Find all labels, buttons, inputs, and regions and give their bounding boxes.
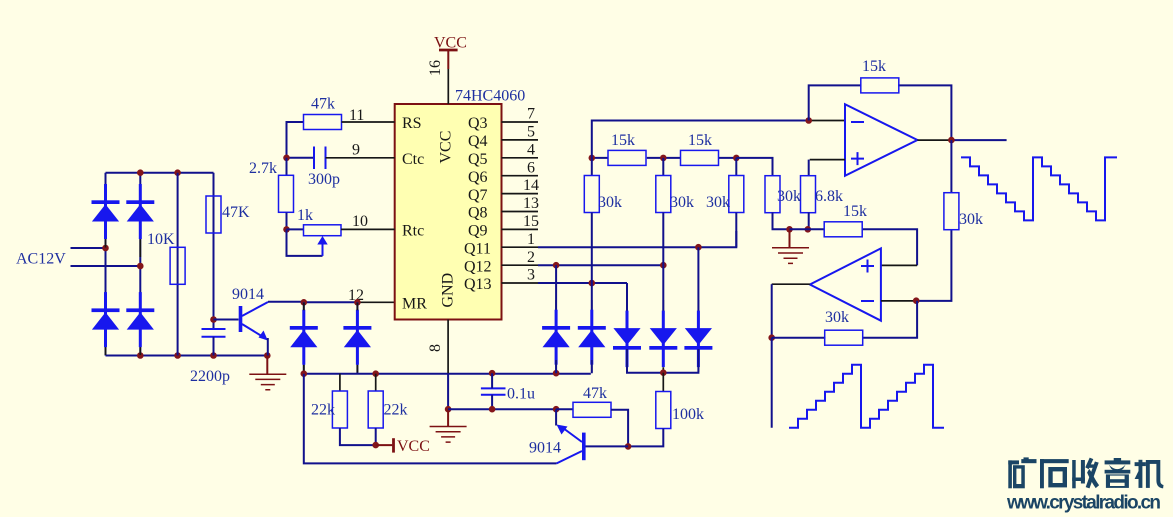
svg-text:13: 13 [523, 195, 539, 212]
svg-text:11: 11 [349, 107, 364, 124]
ground: logic [430, 406, 467, 442]
svg-text:16: 16 [427, 60, 444, 76]
diode D4 bridge bottom-right [126, 292, 154, 347]
wire: lower rail left segment [304, 373, 591, 375]
wire: Q13 row [538, 282, 627, 284]
svg-text:15k: 15k [843, 203, 867, 220]
char yin [1114, 458, 1121, 461]
wire: bridge bottom rail [106, 355, 268, 357]
svg-text:22k: 22k [384, 402, 408, 419]
opamp U2 [845, 104, 917, 176]
node: Q rows [695, 244, 702, 251]
diode D8 up [578, 310, 606, 365]
resistor 15k #1 [608, 150, 646, 165]
resistor 15k #2 [681, 150, 719, 165]
diode D6 [343, 310, 371, 365]
resistor 30k colA [584, 158, 599, 283]
resistor 6.8k [801, 176, 816, 230]
svg-text:100k: 100k [672, 406, 704, 423]
svg-text:3: 3 [527, 267, 535, 284]
wire: col A up to opamp minus rail [592, 121, 810, 158]
resistor 15k lower [824, 222, 862, 237]
wire: colA down to diode [591, 283, 593, 325]
svg-text:10K: 10K [147, 231, 175, 248]
node: collector / MR [301, 299, 308, 306]
resistor 15k feedback [861, 78, 899, 93]
ground: opamp [772, 229, 809, 263]
node: base tap [210, 316, 217, 323]
resistor 30k feedback [825, 330, 863, 345]
wire: opamp1 output [917, 139, 951, 141]
pin MR stub [359, 301, 395, 303]
svg-text:6.8k: 6.8k [815, 188, 843, 205]
svg-text:15k: 15k [862, 58, 886, 75]
wire: bridge left column [105, 173, 107, 356]
diode D3 bridge bottom-left [92, 292, 120, 347]
svg-text:47k: 47k [311, 96, 335, 113]
svg-text:47k: 47k [583, 385, 607, 402]
wire: base of Q1 [214, 319, 239, 321]
node: 100k top [660, 369, 667, 376]
node: ladder [589, 155, 596, 162]
wire: opamp2 output [772, 283, 810, 285]
svg-text:AC12V: AC12V [16, 251, 66, 268]
svg-text:www.crystalradio.cn: www.crystalradio.cn [1006, 493, 1161, 514]
potentiometer 1k [287, 225, 395, 256]
power VCC (top) [434, 35, 467, 105]
svg-text:5: 5 [527, 124, 535, 141]
capacitor 0.1u [481, 373, 506, 409]
node: lower rail [301, 370, 308, 377]
wire: feedback loop top [809, 85, 952, 140]
resistor 47k (bottom) [556, 402, 628, 446]
svg-text:9014: 9014 [529, 440, 561, 457]
diode D1 bridge top-left [92, 184, 120, 239]
svg-text:47K: 47K [222, 204, 250, 221]
svg-text:4: 4 [527, 141, 535, 158]
resistor 2.7k [279, 158, 294, 230]
wire: 15k to opamp2 [790, 229, 918, 265]
diode D7 up [542, 310, 570, 365]
svg-text:VCC: VCC [438, 131, 455, 164]
node: feedback tap [768, 334, 775, 341]
wire: bridge top rail [106, 172, 214, 174]
wire: AC input bottom [71, 265, 141, 267]
char shi [1040, 459, 1044, 488]
capacitor 300p [287, 147, 395, 170]
wire: 0.1u row [448, 408, 556, 410]
svg-text:10: 10 [352, 213, 368, 230]
svg-text:74HC4060: 74HC4060 [455, 88, 525, 105]
resistor 47k (RS feedback) [287, 115, 395, 158]
node: gnd row [786, 226, 793, 233]
svg-text:Q6: Q6 [468, 169, 488, 186]
wire: long bottom run [304, 374, 557, 464]
wire: diode col 698 [697, 247, 699, 325]
capacitor 2200p [202, 329, 226, 356]
wire: diode col 627 [626, 283, 628, 325]
diode D11 down [684, 311, 712, 368]
wire: AC input top [71, 247, 106, 249]
IC right pin stubs Q3-Q9 [502, 122, 539, 283]
svg-text:300p: 300p [308, 171, 340, 188]
node: output [948, 137, 955, 144]
char shou [1072, 460, 1076, 488]
power VCC (bottom) [376, 438, 394, 452]
wire: bridge right column [139, 173, 141, 356]
node: minus rail tap [805, 117, 812, 124]
node: 0.1u bottom [489, 406, 496, 413]
ladder rail 15k [592, 157, 737, 159]
pin: diode black stubs [106, 239, 699, 372]
node: Rtc tap [283, 226, 290, 233]
transistor Q2 9014 [556, 409, 628, 463]
svg-text:2.7k: 2.7k [249, 160, 277, 177]
opamp U3 (pointing left) [810, 248, 881, 320]
svg-text:1k: 1k [297, 207, 313, 224]
svg-text:Q12: Q12 [464, 258, 492, 275]
svg-text:9: 9 [352, 142, 360, 159]
svg-text:30k: 30k [598, 194, 622, 211]
svg-text:GND: GND [440, 273, 457, 308]
node: bottom rail [137, 352, 144, 359]
svg-text:14: 14 [523, 177, 539, 194]
wire: Q11 row [538, 231, 736, 247]
node: top rail to 10K [137, 169, 144, 176]
svg-text:22k: 22k [311, 402, 335, 419]
svg-text:MR: MR [402, 296, 427, 313]
diode D10 down [649, 311, 677, 368]
wire: down from feedback tap [771, 338, 773, 428]
wire: 47K column [213, 173, 215, 329]
svg-text:Q3: Q3 [468, 115, 488, 132]
waveform: bottom staircase [789, 365, 944, 428]
diode D2 bridge top-right [126, 184, 154, 239]
diode D9 down [613, 311, 641, 368]
svg-text:1: 1 [527, 231, 535, 248]
diode D5 [290, 310, 318, 365]
resistor 22k #2 [368, 374, 383, 445]
svg-text:30k: 30k [777, 188, 801, 205]
svg-text:15k: 15k [611, 132, 635, 149]
wire: MR row [304, 301, 359, 303]
pin 8 wire [447, 320, 449, 374]
wire: right diode rail [627, 349, 698, 373]
resistor 47K [206, 196, 221, 233]
svg-text:7: 7 [527, 106, 535, 123]
node: 2.7k top [283, 155, 290, 162]
resistor 10K [170, 247, 185, 284]
char ji [1139, 460, 1143, 488]
resistor 30k colD [765, 176, 790, 230]
char kuang [1008, 460, 1012, 488]
wire: 30k col D [736, 158, 772, 176]
wire: opamp2 minus [881, 300, 916, 302]
ground: bridge [249, 356, 286, 390]
svg-text:2: 2 [527, 249, 535, 266]
wire: D7-D8 bottoms [556, 360, 592, 373]
waveform: top right staircase [961, 157, 1117, 220]
svg-text:Q8: Q8 [468, 205, 488, 222]
svg-text:Ctc: Ctc [402, 151, 424, 168]
resistor 30k right col [944, 140, 959, 230]
svg-text:Q11: Q11 [464, 240, 491, 257]
node: Q2 base [625, 443, 632, 450]
pin numbers right [523, 106, 539, 284]
node: VCC tap [372, 442, 379, 449]
svg-text:15k: 15k [688, 132, 712, 149]
wire: diode col 556 [555, 265, 557, 325]
svg-text:8: 8 [427, 344, 444, 352]
svg-text:Rtc: Rtc [402, 223, 424, 240]
wire: plus input [810, 159, 845, 161]
svg-text:Q9: Q9 [468, 223, 488, 240]
IC U1 74HC4060 [395, 88, 526, 320]
svg-text:6: 6 [527, 159, 535, 176]
svg-text:VCC: VCC [397, 438, 430, 455]
svg-text:Q13: Q13 [464, 276, 492, 293]
resistor 30k colB [656, 158, 671, 325]
wire: diode column A (left pair) [303, 302, 305, 373]
svg-text:30k: 30k [959, 211, 983, 228]
node: AC taps [102, 245, 109, 252]
wire: feedback 30k row [772, 301, 917, 338]
resistor 100k [628, 373, 671, 447]
transistor Q1 9014 [239, 302, 304, 356]
svg-text:30k: 30k [825, 309, 849, 326]
svg-text:0.1u: 0.1u [507, 386, 535, 403]
wire: 10K column [177, 173, 179, 356]
svg-text:RS: RS [402, 115, 422, 132]
logo 矿石收音机 [1008, 457, 1163, 488]
svg-text:Q7: Q7 [468, 187, 488, 204]
svg-text:Q4: Q4 [468, 133, 488, 150]
IC pin names [402, 115, 492, 312]
resistor 22k #1 [332, 374, 375, 445]
svg-text:9014: 9014 [232, 286, 264, 303]
svg-text:Q5: Q5 [468, 151, 488, 168]
resistor 30k colC [729, 158, 744, 247]
wire: Q12 row [538, 264, 663, 266]
svg-text:2200p: 2200p [190, 368, 230, 385]
svg-text:30k: 30k [670, 194, 694, 211]
svg-text:30k: 30k [706, 194, 730, 211]
svg-text:15: 15 [523, 213, 539, 230]
node: minus [913, 297, 920, 304]
